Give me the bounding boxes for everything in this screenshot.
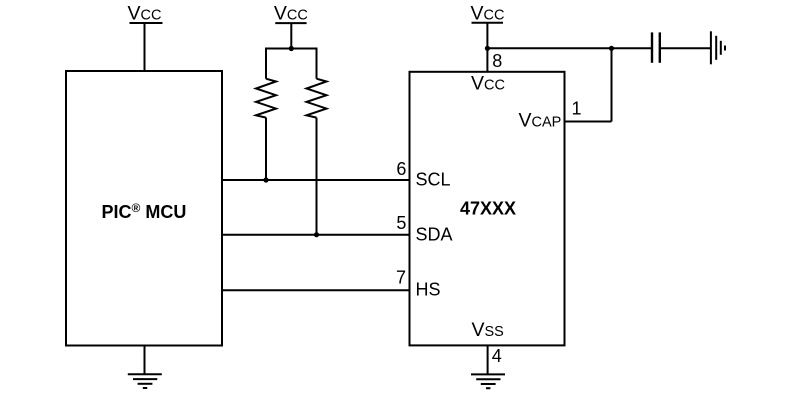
pin label SDA (pin 5, inside box) [416,224,453,244]
47XXX box U1 [410,72,565,346]
capacitor C1 [652,32,660,62]
svg-text:PIC® MCU: PIC® MCU [102,201,187,222]
junction at pin 8 stem [485,46,490,51]
svg-text:7: 7 [396,268,406,288]
svg-text:47XXX: 47XXX [460,199,516,219]
pin label Vss (pin 4, inside box) [472,319,504,341]
svg-text:1: 1 [572,99,582,119]
wire: HS net [221,289,410,291]
pin label VCAP (pin 1, inside box) [519,110,562,132]
pin label HS (pin 7, inside box) [416,280,441,300]
junction: R2 to SDA [314,232,319,237]
ground symbol (PIC) [128,346,162,389]
svg-text:SCL: SCL [416,170,451,190]
svg-text:HS: HS [416,280,441,300]
wire: pin 4 stem [487,345,489,375]
wire: SCL net [221,179,410,181]
power VCC symbol (47XXX pin 8) [471,3,505,25]
ground symbol (capacitor, rotated) [711,31,725,64]
resistor R2 (SDA pull-up) [307,49,327,235]
junction at VCC stem / resistor bus [289,46,294,51]
wire: VCC stem to 47XXX pin 8 [486,23,488,72]
svg-text:8: 8 [492,51,502,71]
wire: VCAP branch vertical [611,48,613,121]
junction: R1 to SCL [263,177,268,182]
wire: SDA net [221,234,410,236]
wire: pin 1 stub [564,121,612,123]
wire: capacitor to ground [661,47,710,49]
svg-text:4: 4 [492,346,502,366]
resistor R1 (SCL pull-up) [256,49,276,181]
PIC MCU box U2 [66,71,222,346]
svg-text:6: 6 [396,159,406,179]
pin label Vcc (pin 8, inside box) [471,73,505,95]
power VCC symbol (PIC) [128,3,163,25]
wire: VCC stem to PIC box top [144,23,146,71]
wire: VCC stem to resistor bus [290,23,292,48]
power VCC symbol (pull-up resistors) [274,3,308,25]
ground symbol (47XXX VSS) [471,374,505,388]
wire: resistor top bus [266,49,317,59]
junction at VCAP branch [609,46,614,51]
wire: VCC node to bypass capacitor [487,47,652,49]
svg-text:SDA: SDA [416,224,453,244]
pin label SCL (pin 6, inside box) [416,170,451,190]
svg-text:5: 5 [396,213,406,233]
